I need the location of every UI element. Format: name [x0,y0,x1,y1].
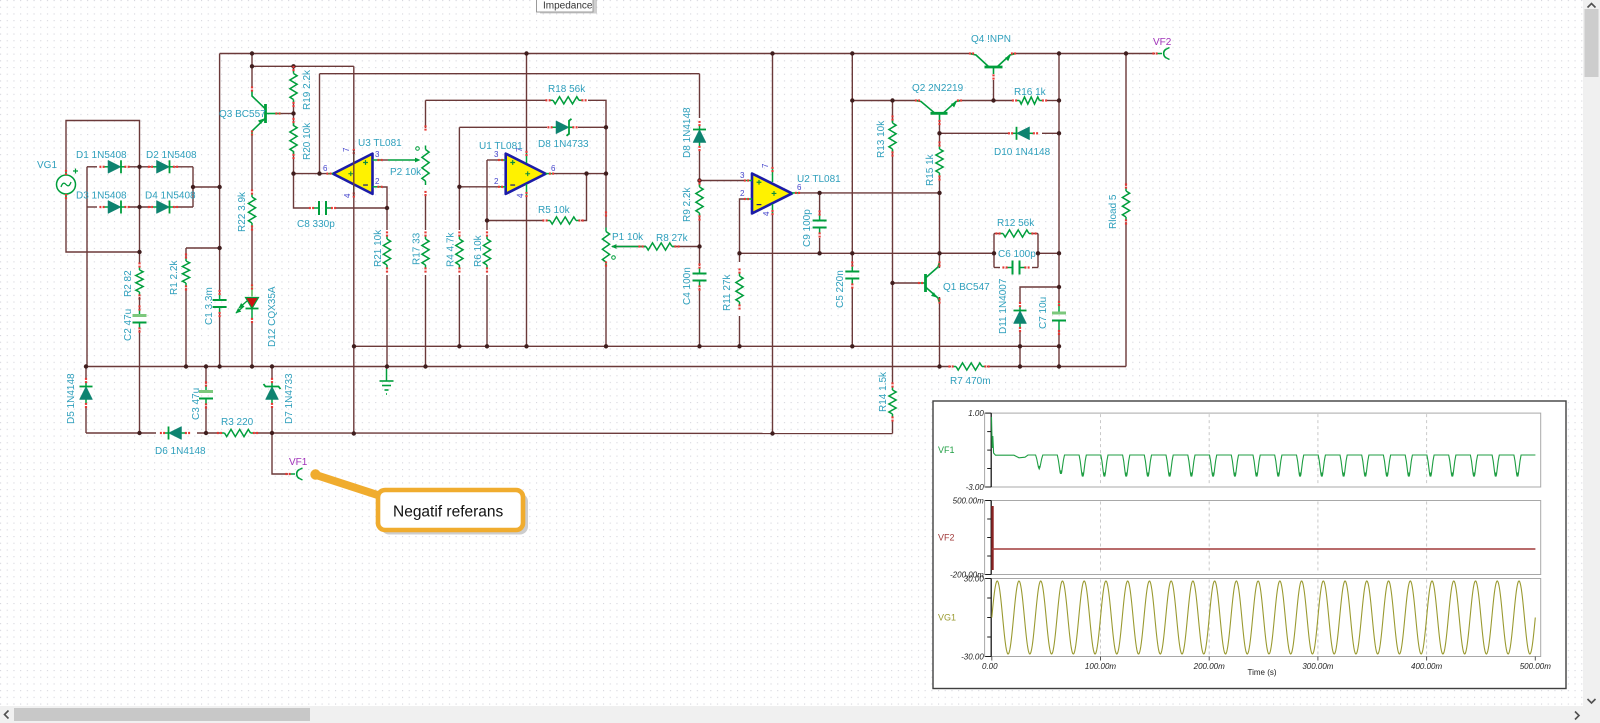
junction [1057,131,1061,135]
wire C4 bottom to neg bus [699,288,701,346]
wire ground stub [386,367,388,370]
junction [1057,98,1061,102]
wire R14 bottom corner [892,420,894,434]
svg-text:R21 10k: R21 10k [373,229,384,267]
wire C9 bottom lead [819,238,821,253]
wire bus VCC top (left segment) [220,53,972,55]
wire C3 top lead [205,367,207,385]
tooltip Impedance [537,0,594,12]
svg-text:D12 CQX35A: D12 CQX35A [267,286,278,347]
junction [850,51,854,55]
svg-text:VF1: VF1 [938,445,955,455]
wire R5 right up to output [581,174,587,221]
junction [270,431,274,435]
junction [457,185,461,189]
potentiometer P1 10k [602,211,646,266]
svg-text:2: 2 [494,177,499,186]
junction [697,344,701,348]
wire R11 top lead [739,253,741,262]
voltage source VG1 [57,169,79,200]
wire D5 bottom lead [85,406,87,433]
wire down to R14 [892,283,894,384]
wire C1 column mid [219,186,221,294]
wire R13 bottom to Q1 base [893,150,920,283]
svg-text:C8 330p: C8 330p [297,219,335,230]
U1 pin numbers [494,147,556,198]
transistor Q2 2N2219 (NPN) [915,101,962,121]
junction [1057,51,1061,55]
wire U2 pin7 supply [772,54,774,169]
svg-text:2: 2 [740,189,745,198]
wire Q4 base down [993,80,995,101]
junction [250,51,254,55]
svg-text:300.00m: 300.00m [1302,662,1333,671]
wire Q3 base to R19/R20 node [281,113,294,115]
junction [737,344,741,348]
U2 pin numbers [740,163,802,216]
U3 pin stubs [326,149,382,198]
wire D11 bottom [1019,330,1021,367]
tooltip Impedance shadow [540,0,597,14]
callout pointer [316,475,390,499]
svg-text:D11 1N4007: D11 1N4007 [998,278,1009,334]
wire Q2 base down [939,120,941,133]
capacitor C2 47u [133,305,147,332]
svg-text:P2 10k: P2 10k [390,167,422,178]
junction [457,344,461,348]
wire D1 anode lead-in [87,166,97,168]
gridlines VF1 [1101,414,1427,486]
junction [604,344,608,348]
wire R13 top lead [892,101,894,123]
svg-text:6: 6 [323,164,328,173]
VF2 trace [991,506,1535,570]
junction [1057,285,1061,289]
resistor R7 470m [948,363,989,370]
junction [1057,364,1061,368]
svg-text:R1 2.2k: R1 2.2k [169,260,180,295]
diode D8 1N4733 (zener) [547,119,577,136]
junction [385,206,389,210]
svg-text:Q4 !NPN: Q4 !NPN [971,34,1011,45]
wire R16 right to column [1046,100,1059,102]
svg-text:R13 10k: R13 10k [876,120,887,158]
resistor R13 10k [889,115,896,156]
wire right column upper [1058,54,1060,303]
junction [1018,344,1022,348]
junction [937,191,941,195]
wire U1 pin4 supply down [526,196,528,346]
junction [317,171,321,175]
ground [380,369,394,394]
wire R15 bottom to out row [939,177,941,193]
junction [291,171,295,175]
diode D5 1N4148 [80,378,93,408]
wire U3 output row [294,173,328,175]
junction [217,364,221,368]
svg-text:500.00m: 500.00m [953,497,984,506]
vertical scrollbar [1583,0,1600,723]
junction [524,344,528,348]
wire bus U3 output feed [320,73,700,75]
wire R18 right down column [588,100,606,213]
svg-text:R2 82: R2 82 [123,270,134,297]
svg-text:R16 1k: R16 1k [1014,87,1047,98]
wire R12 right lead [1031,233,1038,235]
wire U3 supply through symbol [353,150,355,196]
junction [991,98,995,102]
wire bridge output to C1 column [193,186,220,188]
axis spine VF1 [985,413,991,487]
diode D6 1N4148 [160,427,190,440]
junction [1057,344,1061,348]
junction [137,431,141,435]
resistor R17 33 [422,231,429,272]
wire node to C4 [699,247,701,267]
resistor Rload 5 [1122,183,1129,224]
svg-text:Q2 2N2219: Q2 2N2219 [912,83,964,94]
wire Rload bottom [1125,222,1127,367]
svg-text:Time (s): Time (s) [1247,668,1276,677]
junction [697,178,701,182]
wire R1 top branch [186,247,220,249]
wire R19-R20 node [293,101,295,126]
x axis labels [982,662,1551,671]
junction [697,244,701,248]
wire R12 left lead [994,233,1001,235]
plot frame VF1 [985,413,1541,487]
junction [191,185,195,189]
wire U1 output row [553,173,606,175]
resistor R12 56k [995,230,1036,237]
resistor R3 220 [217,429,258,436]
junction [524,51,528,55]
U2 pin stubs [744,167,800,215]
junction [291,111,295,115]
svg-text:D1 1N5408: D1 1N5408 [76,150,127,161]
horizontal scrollbar [0,706,1583,723]
wire P2 top column [425,100,427,128]
wire C3 bottom lead [205,406,207,433]
junction [250,364,254,368]
wire base to R15 top [939,133,941,145]
wire P2 bottom to R17 [425,194,427,230]
wire R12/C6 left side [993,234,995,268]
wire U1 pin3 down column [486,160,488,221]
junction [204,364,208,368]
wire C6 left lead [994,267,1000,269]
svg-text:Rload 5: Rload 5 [1108,194,1119,229]
svg-text:C6 100p: C6 100p [998,249,1036,260]
wire R20 bottom to U3 out [293,151,295,174]
capacitor C3 47u [199,381,213,408]
wire VG1 minus to node [66,194,140,252]
junction [84,364,88,368]
diode D4 1N5408 [148,201,178,214]
gridlines VF2 [1101,502,1427,574]
svg-text:VF1: VF1 [289,457,308,468]
wire P1 bottom column [605,264,607,346]
callout shadow [381,494,528,535]
voltage pin VF1 [285,468,302,480]
svg-text:C7 10u: C7 10u [1038,297,1049,329]
svg-text:D4 1N5408: D4 1N5408 [145,191,196,202]
wire D8b bottom to pin3 node [699,149,701,181]
capacitor C5 220n [845,261,859,288]
wire D1-D2 link [128,166,151,168]
svg-text:VF2: VF2 [938,533,955,543]
junction [1018,364,1022,368]
wire right column lower [1058,331,1060,367]
plot frame VG1 [985,579,1541,657]
wire Q3 emitter to R22 [251,136,253,191]
wire bottom bus D6-R3 segment [197,432,220,434]
wire comp node to block [940,252,995,254]
capacitor C4 100n [693,263,707,290]
wire VG1 plus to bridge top [66,121,140,176]
axis spine VG1 [985,579,991,657]
resistor R5 10k [542,217,583,224]
junction [137,250,141,254]
wire R4 bottom to neg bus [458,275,460,346]
wire U1 pin3 stub [487,159,499,161]
junction [184,364,188,368]
wire gnd bus row [86,366,1126,368]
wire bridge right rail [192,167,194,207]
junction [352,431,356,435]
svg-text:R3 220: R3 220 [221,417,254,428]
junction [485,344,489,348]
R7 inline gap [951,365,987,368]
svg-text:7: 7 [342,147,351,152]
resistor R14 1.5k [889,382,896,421]
op-amp U1 TL081 [506,154,546,194]
capacitor C6 100p [1002,261,1029,275]
wire D2 out [175,166,193,168]
wire bus drop to U3 output [319,74,321,174]
svg-text:-30.00: -30.00 [961,653,984,662]
svg-text:C2 47u: C2 47u [123,309,134,341]
wire column VCC to C5 [851,54,853,266]
svg-text:200.00m: 200.00m [1193,662,1225,671]
svg-text:3: 3 [375,150,380,159]
wire U3 pin7 supply [353,66,355,150]
wire C5 bottom to neg bus [851,288,853,346]
wire U2 pin2 down [740,199,746,253]
wire D10 left row [940,132,1011,134]
svg-text:Q1 BC547: Q1 BC547 [943,282,990,293]
wire U2 pin3 row [700,180,746,182]
svg-text:P1 10k: P1 10k [612,232,644,243]
wire Q2 emitter to R16 row [958,100,1013,102]
wire U2 output row [796,192,940,194]
wire R1 bottom to mid bus [185,288,187,367]
wire bottom bus left segment [86,432,156,434]
svg-text:R14 1.5k: R14 1.5k [878,371,889,412]
svg-text:Impedance: Impedance [543,1,593,12]
wire R4 top lead [458,187,460,230]
junction [250,64,254,68]
svg-text:30.00: 30.00 [964,575,985,584]
svg-text:D8 1N4148: D8 1N4148 [682,107,693,158]
svg-text:2: 2 [375,177,380,186]
junction [291,64,295,68]
plot frame VF2 [985,501,1541,575]
svg-text:U1 TL081: U1 TL081 [479,141,523,152]
wire C1 column upper [219,54,221,187]
wire VF1 stub [272,433,288,474]
wire Q1 emitter down [939,297,941,367]
wire U1 pin7 supply [526,54,528,153]
resistor R1 2.2k [182,253,189,290]
svg-text:-3.00: -3.00 [966,483,985,492]
wire R5 left row [487,220,544,222]
U3 pin numbers [323,147,380,198]
svg-text:6: 6 [551,164,556,173]
svg-text:500.00m: 500.00m [1520,662,1551,671]
svg-text:0.00: 0.00 [982,662,998,671]
junction [850,251,854,255]
wire D3-D4 link [128,206,151,208]
wire C9 top lead [819,193,821,214]
resistor R6 10k [483,231,490,272]
junction [850,344,854,348]
diode D7 1N4733 (zener) [264,378,281,408]
svg-text:R6 10k: R6 10k [473,234,484,267]
voltage pin VF2 [1152,48,1169,60]
resistor R21 10k [383,231,390,272]
svg-text:R11 27k: R11 27k [722,273,733,311]
wire U3 pin2 to C8 node [381,187,387,208]
svg-text:U2 TL081: U2 TL081 [797,174,841,185]
wire bottom bus right segment [255,432,893,435]
wire U3 pin3 to P2 wiper [381,159,388,161]
capacitor C8 330p [309,201,336,215]
wire D8 zener left row [459,126,547,128]
wire C1 column lower [219,313,221,367]
resistor R4 4.7k [456,231,463,272]
wire P1 wiper to R8 [612,246,646,248]
wire R9 top lead [699,181,701,187]
svg-text:100.00m: 100.00m [1085,662,1116,671]
LED D12 CQX35A [236,284,259,323]
gridlines VG1 [1101,580,1427,656]
junction [385,364,389,368]
diode D8 1N4148 [693,121,706,151]
wire D7 bottom lead [271,406,273,433]
resistor R11 27k [736,268,743,309]
junction [270,364,274,368]
svg-text:C9 100p: C9 100p [802,209,813,247]
resistor R16 1k [1012,97,1047,104]
wire D7 top lead [271,367,273,380]
wire R6 bottom to neg bus [486,275,488,346]
wire D4 out [175,206,193,208]
svg-text:D10 1N4148: D10 1N4148 [994,147,1051,158]
wire R18 left row [426,99,547,101]
svg-text:4: 4 [343,193,352,198]
svg-text:C5 220n: C5 220n [835,270,846,308]
junction [1036,251,1040,255]
resistor R18 56k [545,97,586,104]
wire U1 pin2 row [459,186,499,188]
wire Q3 collector column top [251,54,253,88]
resistor R20 10k [290,118,297,159]
junction [204,431,208,435]
junction [890,98,894,102]
resistor R2 82 [136,262,143,299]
wire R12/C6 right side [1037,234,1039,268]
junction [485,218,489,222]
resistor R8 27k [638,243,679,250]
junction [850,98,854,102]
svg-text:R22 3.9k: R22 3.9k [237,191,248,232]
svg-text:400.00m: 400.00m [1411,662,1442,671]
wire node to R2 top [139,252,141,264]
svg-text:R15 1k: R15 1k [925,153,936,186]
wire U2 pin4 supply down [772,212,774,434]
svg-text:R9 2.2k: R9 2.2k [682,187,693,222]
junction [992,251,996,255]
svg-text:VG1: VG1 [37,160,57,171]
x ticks [992,657,1536,661]
junction [1057,251,1061,255]
svg-text:R4 4.7k: R4 4.7k [446,232,457,267]
op-amp U2 TL081 [752,174,792,214]
capacitor C7 10u (polarized) [1052,301,1066,335]
potentiometer P2 10k [388,125,429,196]
svg-text:1.00: 1.00 [968,409,984,418]
svg-text:Negatif referans: Negatif referans [393,504,504,521]
wire R6 top lead [486,221,488,231]
wire C2 bottom to bottom bus [139,330,141,433]
junction [604,171,608,175]
svg-text:R18 56k: R18 56k [548,84,586,95]
junction [137,205,141,209]
wire R1 top lead [185,248,187,257]
svg-text:C4 100n: C4 100n [682,267,693,305]
wire R2 to C2 [139,297,141,310]
wire D10 right row [1042,132,1059,134]
wire R21 bottom to mid bus [386,275,388,367]
wire U3 pin4 supply down [353,150,355,434]
wire R11 bottom to neg bus [739,316,741,346]
svg-text:D2 1N5408: D2 1N5408 [146,150,197,161]
svg-text:R19 2.2k: R19 2.2k [302,69,313,110]
waveform plot panel [933,401,1566,689]
capacitor C1 3.3m [213,290,227,317]
resistor R22 3.9k [248,189,255,230]
junction [770,431,774,435]
wire bus VCC top (right segment to VF2) [1013,53,1155,55]
wire Q2 collector row [852,100,919,102]
wire C8 right to pin2 column [335,207,387,209]
wire R17 bottom to mid bus [425,275,427,367]
wire bus node B (to U3 pin7) [252,65,354,67]
svg-text:R17 33: R17 33 [412,232,423,265]
svg-text:R5 10k: R5 10k [538,205,571,216]
svg-text:3: 3 [740,171,745,180]
resistor R9 2.2k [696,179,703,220]
svg-text:R12 56k: R12 56k [997,218,1035,229]
svg-text:Q3 BC557: Q3 BC557 [219,109,266,120]
junction [770,51,774,55]
wire R19 top lead from bus [293,66,295,72]
junction [890,281,894,285]
junction [817,251,821,255]
wire comp node row [740,252,995,254]
junction [217,246,221,250]
